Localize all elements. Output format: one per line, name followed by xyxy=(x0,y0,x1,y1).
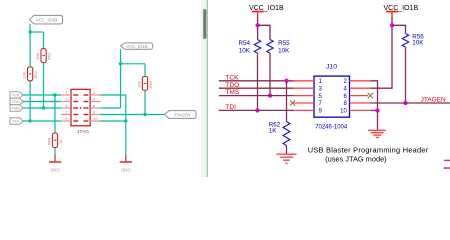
svg-text:10K: 10K xyxy=(239,47,251,54)
svg-text:10K: 10K xyxy=(35,53,40,60)
node junction on JTAGEN row xyxy=(143,113,146,116)
resistor R52 10K xyxy=(22,67,38,81)
pin numbers J10 left xyxy=(319,79,323,115)
wire branch down into R56 xyxy=(144,64,146,77)
svg-text:70246-1004: 70246-1004 xyxy=(315,125,348,131)
wire R62 to GND xyxy=(286,146,288,155)
node junction VCC1 branch xyxy=(28,30,31,33)
svg-text:TMS: TMS xyxy=(12,107,20,111)
resistor R56 10K (left pane) xyxy=(136,77,153,91)
wire TCK row xyxy=(219,80,294,82)
node junction VCC right xyxy=(390,23,394,27)
svg-text:R51: R51 xyxy=(47,52,52,60)
resistor R56 10K xyxy=(402,33,424,47)
wire branch right xyxy=(30,31,43,33)
edge mark 2 xyxy=(444,167,450,169)
wire R56 to JTAGEN row xyxy=(144,91,146,115)
pane divider xyxy=(206,0,208,177)
wire TDI row xyxy=(23,120,61,122)
ground GND1 xyxy=(49,155,61,173)
resistor R51 10K xyxy=(35,49,52,63)
wire pin2 down to pin10 row xyxy=(125,95,127,121)
svg-text:R54: R54 xyxy=(238,40,250,47)
connector J10 xyxy=(314,63,350,130)
power port VCC_IO1B (flag 1) xyxy=(30,15,63,24)
pin stubs left of connector xyxy=(61,95,71,121)
pin numbers right 2 4 6 8 10 xyxy=(93,90,98,121)
wire TMS row xyxy=(219,95,294,97)
port TDI xyxy=(10,118,23,124)
node junction R55/TMS xyxy=(268,93,272,97)
svg-text:10K: 10K xyxy=(22,71,27,78)
no-connect X pin7 xyxy=(290,100,295,105)
wire JTAGEN row xyxy=(100,114,165,116)
port TDO xyxy=(10,98,23,104)
svg-text:TCK: TCK xyxy=(12,94,20,98)
resistor R62 1K xyxy=(269,121,290,145)
node junction pin10/gnd xyxy=(375,108,379,112)
edge mark 1 xyxy=(444,160,450,162)
scrollbar track xyxy=(201,0,207,177)
wire down to GND2 xyxy=(125,121,127,156)
wire JTAGEN row xyxy=(371,102,450,104)
svg-text:R68: R68 xyxy=(46,137,51,145)
wire branch to R55 xyxy=(258,25,270,39)
node junction on TCK row xyxy=(53,93,56,96)
wire TDO row xyxy=(219,87,294,89)
wire TDO row xyxy=(23,101,61,103)
resistor R55 10K xyxy=(267,40,290,55)
svg-text:10: 10 xyxy=(93,116,98,121)
svg-text:JTAGEN: JTAGEN xyxy=(421,97,446,104)
wire TDI row xyxy=(219,109,294,111)
svg-text:USB Blaster Programming Header: USB Blaster Programming Header xyxy=(308,145,429,154)
power symbol bar left xyxy=(252,11,264,18)
node junction on TMS row xyxy=(42,106,45,109)
svg-text:1K: 1K xyxy=(269,128,278,135)
svg-text:10K: 10K xyxy=(278,48,290,55)
svg-text:10K: 10K xyxy=(412,40,424,47)
wire branch to R56 xyxy=(392,25,406,33)
wire pin10 row xyxy=(371,109,379,111)
wire pin2 row right xyxy=(100,94,126,96)
wire TMS row xyxy=(23,107,61,109)
svg-text:GND: GND xyxy=(50,168,59,173)
pin numbers left 1 3 5 7 9 xyxy=(65,90,68,121)
pin stubs J10 right xyxy=(350,81,371,111)
pin stubs right of connector xyxy=(90,95,100,121)
pin stubs J10 left xyxy=(293,81,315,111)
wire R52 to TDI row xyxy=(29,81,31,121)
svg-text:JTAGEN: JTAGEN xyxy=(174,112,191,117)
port TMS xyxy=(10,105,23,111)
svg-text:R55: R55 xyxy=(278,40,290,47)
wire R55 down to TMS row xyxy=(269,53,271,96)
svg-text:VCC_IO1B: VCC_IO1B xyxy=(36,17,57,22)
svg-text:VCC_IO1B: VCC_IO1B xyxy=(126,44,147,49)
no-connect X pin6 xyxy=(368,93,373,98)
svg-text:GND: GND xyxy=(121,168,130,173)
svg-text:(uses JTAG mode): (uses JTAG mode) xyxy=(325,154,387,163)
node junction VCC2 branch xyxy=(119,62,122,65)
wire R51 to TMS row xyxy=(43,62,45,108)
wire VCC left down xyxy=(257,17,259,39)
svg-text:R56: R56 xyxy=(148,80,153,88)
svg-text:10K: 10K xyxy=(136,81,141,88)
wire VCC2 down to pin6 row xyxy=(120,49,122,108)
ground under R62 xyxy=(277,154,297,163)
port TCK xyxy=(10,92,23,98)
node junction on TDI row xyxy=(28,119,31,122)
svg-text:JTAG: JTAG xyxy=(77,129,89,135)
svg-text:10: 10 xyxy=(340,109,347,115)
wire VCC1 down xyxy=(29,24,31,67)
svg-text:TDO: TDO xyxy=(12,100,20,104)
svg-text:TDI: TDI xyxy=(13,120,19,124)
ground right xyxy=(368,130,386,137)
node junction R54/TDI xyxy=(255,108,259,112)
svg-text:J10: J10 xyxy=(326,63,337,70)
node junction pin10 row xyxy=(124,119,127,122)
wire branch right to R56 xyxy=(121,63,146,65)
wire R68 to GND1 xyxy=(54,148,56,156)
wire VCC2 turn left to pin6 xyxy=(100,107,121,109)
wire R62 vertical from TCK row xyxy=(286,81,288,122)
port JTAGEN (right flag) xyxy=(165,111,197,119)
node junction R56/JTAGEN xyxy=(403,101,407,105)
resistor R68 1K xyxy=(46,133,63,148)
connector JTAG (left pane header) xyxy=(71,89,90,135)
node junction VCC left xyxy=(255,23,259,27)
wire branch down to R51 xyxy=(43,32,45,49)
wire VCC right down to pin4 row xyxy=(371,17,393,88)
pin numbers J10 right xyxy=(340,79,347,115)
wire pin2 to gnd drop xyxy=(371,81,378,111)
resistor R54 10K xyxy=(238,40,260,55)
power symbol bar right xyxy=(386,11,398,18)
svg-text:1K: 1K xyxy=(58,139,63,144)
wire R56 down to JTAGEN row xyxy=(405,47,407,103)
ground GND2 xyxy=(120,155,132,173)
power port VCC_IO1B (flag 2) xyxy=(121,43,153,49)
wire TCK row xyxy=(23,94,61,96)
wire pin10 row xyxy=(100,120,126,122)
scrollbar thumb xyxy=(203,9,206,39)
wire down to right ground xyxy=(377,110,379,130)
svg-text:R52: R52 xyxy=(33,70,38,78)
wire R54 down to TDI row xyxy=(257,53,259,110)
wire TCK junction down to R68 xyxy=(54,95,56,133)
node junction TCK/R62 xyxy=(284,79,288,83)
